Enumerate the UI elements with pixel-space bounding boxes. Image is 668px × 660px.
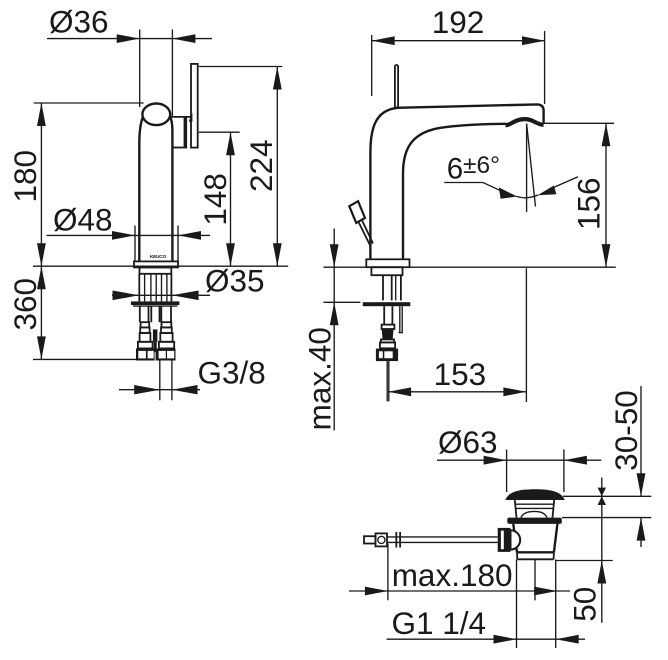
dim Ø63 line — [437, 459, 601, 461]
dim 180/360 line — [40, 103, 42, 359]
dim Ø48 label — [53, 202, 113, 238]
lever arm line — [170, 116, 190, 118]
dim Ø36 line — [47, 38, 212, 40]
dim 360 label — [7, 278, 43, 331]
side shank edges — [383, 275, 401, 300]
svg-text:224: 224 — [243, 139, 279, 192]
svg-text:30-50: 30-50 — [608, 390, 644, 471]
drain body bottom rim — [517, 552, 554, 559]
dim G1 1/4 label — [392, 605, 487, 641]
ext line G1 right — [555, 560, 557, 649]
drain center line — [534, 560, 536, 601]
plumb vertical line — [526, 124, 528, 212]
svg-text:6: 6 — [447, 153, 463, 186]
spout outer edge — [370, 104, 543, 259]
dim max.180 arrow at knob — [365, 587, 388, 596]
svg-text:153: 153 — [434, 356, 487, 392]
left mounting nut front — [136, 348, 155, 360]
pop-up rod tip — [364, 536, 376, 543]
dim G3/8 arrow left — [134, 385, 160, 394]
dim max.180 label — [392, 557, 513, 593]
dim 30-50 arrow down — [637, 473, 646, 496]
hose tube center front — [151, 306, 159, 322]
dim 30-50 lower tail — [640, 518, 642, 547]
lever plate — [191, 64, 198, 148]
dim 224 arrow down — [273, 243, 282, 266]
drain body — [513, 524, 557, 552]
counter line front — [33, 265, 288, 267]
angle leader line — [444, 183, 500, 191]
dim 192 arrow right — [522, 36, 545, 45]
dim 180 arrow up — [37, 103, 46, 126]
dim 153 arrow left — [388, 387, 411, 396]
svg-text:Ø63: Ø63 — [438, 424, 498, 460]
dim max.40 arrow down — [330, 244, 339, 267]
supply hose ends below nut — [160, 361, 172, 401]
svg-text:max.180: max.180 — [392, 557, 513, 593]
dim 30-50 label — [608, 390, 644, 471]
counter line side — [323, 266, 615, 268]
base collar front — [140, 267, 172, 273]
svg-text:148: 148 — [197, 173, 233, 226]
dim 180 label — [7, 150, 43, 203]
left hose adapter stack — [138, 322, 153, 348]
drain plug neck — [515, 500, 554, 518]
dim G1 1/4 line — [387, 638, 585, 640]
svg-text:KEUCO: KEUCO — [150, 254, 167, 260]
dim Ø35 arrow right — [172, 291, 199, 301]
dim 224 arrow up — [273, 67, 282, 90]
side adapter lower band — [381, 339, 394, 342]
ext line 192 right / spout tip — [544, 31, 546, 104]
ext line G1 left — [516, 560, 518, 649]
dim G3/8 arrow right — [172, 385, 198, 394]
dim 153 label — [434, 356, 487, 392]
dim Ø35 label — [205, 263, 265, 299]
drain plug seal dome — [521, 511, 547, 517]
hose tube left front — [140, 306, 149, 322]
shank front edges — [139, 274, 171, 302]
ext line 224 top — [199, 66, 282, 68]
side adapter frame — [380, 342, 395, 348]
pivot ball socket — [511, 530, 521, 549]
shank front inner lines — [145, 274, 167, 302]
spout outlet mound — [506, 119, 544, 125]
svg-text:max.40: max.40 — [301, 327, 337, 430]
ext line Ø63 right — [563, 450, 565, 493]
dim Ø63 arrow right — [564, 456, 587, 465]
center pull rod front — [153, 329, 158, 352]
dim max.40 label — [301, 327, 337, 430]
dim Ø48 arrow left — [112, 231, 135, 240]
angle 6±6° label — [447, 152, 500, 186]
dim G1 1/4 arrow right — [556, 635, 579, 644]
drain flange — [507, 518, 562, 524]
side temperature lever arm — [359, 221, 373, 246]
ext line 156 top — [541, 122, 615, 124]
pop-up rod knob hole — [378, 536, 385, 543]
dim max.40 arrow up — [330, 302, 339, 325]
side adapter white band — [382, 325, 395, 329]
pop-up rod shaft — [387, 537, 498, 543]
angle arrow left — [499, 187, 517, 198]
dim 192 label — [432, 4, 485, 40]
svg-text:180: 180 — [7, 150, 43, 203]
svg-text:Ø48: Ø48 — [53, 202, 113, 238]
dim Ø63 label — [438, 424, 498, 460]
dim 50 label — [566, 587, 602, 622]
ext line Ø48 left — [134, 226, 136, 262]
dim Ø48 arrow right — [178, 231, 201, 240]
dim 180 arrow down — [37, 243, 46, 266]
ext line Ø48 right — [177, 226, 179, 262]
dim 224 label — [243, 139, 279, 192]
dim 360 arrow up — [37, 266, 46, 289]
dim 30-50 arrow up — [637, 518, 646, 541]
lever bracket thick bar — [184, 116, 188, 148]
lever bracket bottom line — [172, 147, 187, 149]
angle arrow right — [538, 186, 557, 196]
dim 148 label — [197, 173, 233, 226]
ext line body bottom — [556, 560, 613, 562]
dim G3/8 line — [119, 389, 200, 391]
ext line 192 left — [371, 35, 373, 96]
svg-text:G3/8: G3/8 — [198, 355, 266, 391]
dim Ø48 line — [47, 234, 211, 236]
svg-text:50: 50 — [566, 587, 602, 622]
svg-text:156: 156 — [571, 177, 607, 230]
dim 153 line — [388, 391, 526, 393]
dim Ø35 arrow left — [113, 291, 140, 301]
side temperature lever paddle — [349, 201, 365, 223]
dim Ø36 label — [49, 4, 109, 40]
side threaded tube — [384, 306, 403, 332]
pivot block — [498, 528, 511, 552]
dim 148 arrow down — [226, 243, 235, 266]
svg-text:±6°: ±6° — [463, 152, 500, 179]
right mounting nut front — [156, 348, 176, 360]
pop-up rod collar ticks — [396, 532, 400, 548]
dim G1 1/4 arrow left — [494, 635, 517, 644]
right hose adapter stack — [159, 322, 174, 348]
dim 192 line — [372, 40, 545, 42]
dim 156 arrow down — [602, 244, 611, 267]
faucet body right edge — [170, 117, 172, 262]
dim G3/8 label — [198, 355, 266, 391]
side base plate — [366, 259, 409, 267]
svg-text:360: 360 — [7, 278, 43, 331]
svg-text:G1 1/4: G1 1/4 — [392, 605, 487, 641]
ext line 148 top — [199, 131, 240, 133]
faucet body left edge — [139, 118, 142, 262]
dim 224 line — [276, 67, 278, 267]
base plate front — [134, 261, 178, 267]
ext line rod knob — [387, 544, 389, 601]
dim max.180 line — [349, 590, 570, 592]
dim 30-50 line upper — [640, 386, 642, 496]
dim 148 line — [230, 132, 232, 266]
ext line Ø63 left — [506, 450, 508, 493]
dim 156 line — [605, 123, 607, 267]
dim 156 label — [571, 177, 607, 230]
angle arc — [516, 195, 538, 198]
svg-text:Ø35: Ø35 — [205, 263, 265, 299]
side adapter dark block — [382, 329, 394, 339]
ext line 180 top — [34, 102, 144, 104]
mounting flange front — [131, 301, 180, 306]
side pull rod — [387, 361, 389, 401]
faucet ball joint — [142, 104, 170, 126]
dim Ø36 arrow left — [117, 34, 140, 43]
ext line 360 bottom — [33, 358, 136, 360]
dim Ø63 arrow left — [484, 456, 507, 465]
dim max.40 line — [333, 229, 335, 431]
svg-text:Ø36: Ø36 — [49, 4, 109, 40]
dim 50 line — [601, 478, 603, 623]
side mounting nut — [376, 349, 398, 362]
spray axis tilted line — [527, 124, 536, 207]
dim 148 arrow up — [226, 132, 235, 155]
dim 360 arrow down — [37, 336, 46, 359]
dim 192 arrow left — [372, 36, 395, 45]
ext line Ø36 left — [139, 30, 141, 108]
KEUCO logo — [150, 254, 167, 260]
spout inner edge — [403, 124, 506, 260]
dim 50 bowtie arrows at cap line — [598, 488, 606, 505]
hose tube right front — [161, 306, 171, 322]
dim 156 arrow up — [602, 123, 611, 146]
svg-text:192: 192 — [432, 4, 485, 40]
drain plug cap — [505, 489, 564, 500]
side base collar — [371, 267, 402, 275]
ext line cap top — [563, 495, 651, 497]
pop-up rod knob — [376, 533, 388, 546]
side mounting flange — [363, 302, 411, 306]
angle arc tail — [554, 177, 578, 188]
drain axis projection line — [525, 268, 527, 402]
dim 153 arrow right — [503, 387, 526, 396]
dim Ø36 arrow right — [172, 34, 195, 43]
dim Ø35 line — [112, 294, 210, 296]
lever plate fillet wedge — [189, 113, 193, 122]
dim 50 arrow up at body bottom — [597, 561, 606, 584]
side lever bar — [395, 65, 398, 108]
ext line flange top — [562, 517, 651, 519]
ext line Ø36 right — [171, 30, 173, 117]
ext line max.40 bottom — [323, 301, 360, 303]
dim max.180 arrow at drain — [534, 587, 557, 596]
